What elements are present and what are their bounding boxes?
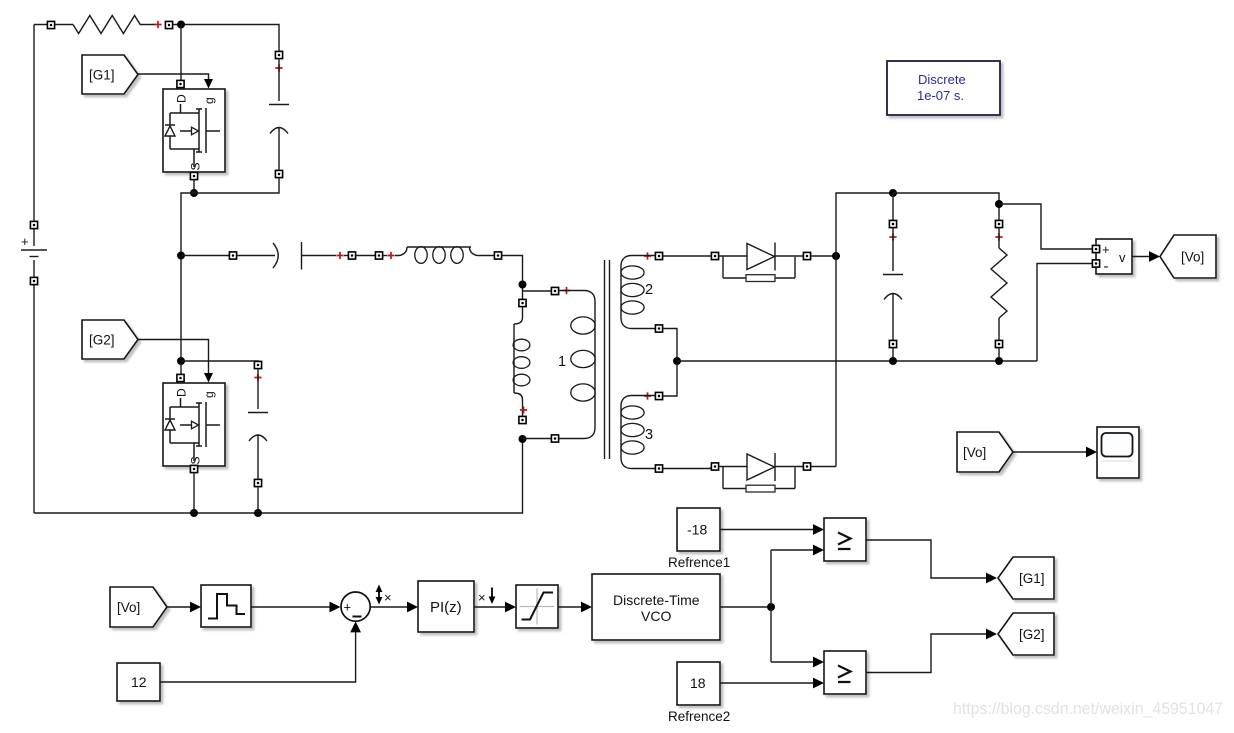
Goto tag [G1] bbox=[998, 557, 1054, 599]
port Q1 drain bbox=[177, 80, 184, 87]
wire: bottom rail to voltmeter minus input bbox=[1037, 264, 1093, 362]
svg-text:+: + bbox=[21, 234, 29, 249]
arrowhead into zero-order hold bbox=[190, 602, 201, 613]
svg-text:v: v bbox=[1119, 250, 1126, 265]
port Q2 drain bbox=[177, 374, 184, 381]
arrowhead into [G2] bbox=[986, 629, 997, 640]
wire: VCO output to fanout node bbox=[720, 606, 771, 608]
wire: winding3 bottom to diode D2 bbox=[663, 467, 712, 469]
svg-text:Discrete: Discrete bbox=[918, 72, 966, 87]
wire: 18 to RO2 second input bbox=[720, 682, 813, 684]
voltage measurement U1 bbox=[1092, 239, 1132, 275]
wire: top rail to load branch bbox=[893, 193, 999, 221]
svg-text:[Vo]: [Vo] bbox=[117, 600, 140, 615]
svg-text:https://blog.csdn.net/weixin_4: https://blog.csdn.net/weixin_45951047 bbox=[953, 700, 1223, 718]
wire: node A down to Q1 drain bbox=[180, 25, 182, 81]
svg-text:2: 2 bbox=[645, 282, 653, 298]
port Q1 source bbox=[190, 172, 197, 179]
scope block bbox=[1097, 427, 1139, 478]
wire: center tap rail to output section bbox=[677, 360, 1037, 362]
PI(z) controller block bbox=[418, 581, 474, 632]
capacitor C3 (output filter capacitor) bbox=[883, 193, 903, 361]
wire: voltmeter to goto [Vo] bbox=[1132, 256, 1149, 258]
transformer secondary winding 2 bbox=[621, 252, 663, 332]
gate arrow into Q2 bbox=[204, 373, 213, 383]
wire: PI(z) to saturation bbox=[474, 606, 505, 608]
svg-text:-18: -18 bbox=[687, 522, 707, 538]
node C junction (181,255) bbox=[177, 252, 185, 260]
arrowhead into [G1] bbox=[986, 573, 997, 584]
wire: 12 to sum bottom input bbox=[160, 632, 356, 682]
node D junction (181,361) bbox=[177, 357, 185, 365]
sum block (+ -) bbox=[341, 592, 370, 621]
svg-text:Refrence2: Refrence2 bbox=[668, 709, 730, 724]
svg-text:VCO: VCO bbox=[641, 608, 671, 624]
inductor Ls (series resonant inductor) bbox=[375, 247, 501, 264]
wire: sum to PI(z) bbox=[370, 606, 407, 608]
wire: [G1] to Q1 gate bbox=[138, 74, 209, 79]
wire: Q2 source down to bottom rail bbox=[193, 473, 195, 514]
constant block 18 (Refrence2) bbox=[668, 662, 730, 724]
svg-text:1: 1 bbox=[558, 354, 566, 370]
inductor Lm (magnetizing inductance) bbox=[513, 299, 530, 423]
wire: [G2] to Q2 gate bbox=[138, 340, 209, 374]
wire: node F to primary winding bottom bbox=[523, 438, 552, 440]
svg-text:+: + bbox=[344, 600, 352, 615]
svg-text:[G2]: [G2] bbox=[1019, 627, 1045, 642]
svg-text:18: 18 bbox=[690, 675, 706, 691]
svg-text:1e-07 s.: 1e-07 s. bbox=[917, 88, 964, 103]
svg-text:[G1]: [G1] bbox=[1019, 571, 1045, 586]
transistor Q1 (upper MOSFET block) bbox=[163, 89, 225, 172]
node H junction (836,256) bbox=[832, 252, 840, 260]
wire: fanout to RO2 first input bbox=[771, 661, 813, 663]
transformer primary winding 1 bbox=[551, 287, 595, 442]
arrowhead into goto [Vo] bbox=[1149, 251, 1160, 262]
DC voltage source Vdc bbox=[21, 221, 47, 284]
svg-text:3: 3 bbox=[645, 427, 653, 443]
svg-text:×: × bbox=[478, 590, 486, 605]
node L junction (999,361) bbox=[995, 357, 1003, 365]
relational operator RO1 (>=) bbox=[824, 518, 866, 561]
wire: [Vo] to scope bbox=[1013, 451, 1086, 453]
wire: fanout vertical bbox=[770, 550, 772, 662]
constant block -18 (Refrence1) bbox=[668, 508, 730, 570]
svg-text:PI(z): PI(z) bbox=[430, 599, 462, 616]
wire: [Vo] to zero-order hold bbox=[167, 606, 190, 608]
svg-text:[G1]: [G1] bbox=[89, 68, 115, 83]
wire: top-left rail from source to resistor and down left side bbox=[34, 25, 48, 514]
wire: node C to series capacitor Cs bbox=[181, 255, 229, 257]
From tag [G1] bbox=[82, 55, 138, 94]
wire: node B left and down midpoint rail bbox=[181, 193, 194, 377]
From tag [Vo] (feedback) bbox=[110, 587, 167, 627]
transistor Q2 (lower MOSFET block) bbox=[163, 383, 225, 466]
Goto tag [G2] bbox=[998, 613, 1054, 655]
From tag [Vo] (to scope) bbox=[957, 432, 1013, 472]
wire: winding3 top to center tap bbox=[663, 361, 678, 396]
relational operator RO2 (>=) bbox=[824, 651, 866, 694]
powergui block: Discrete 1e-07 s. bbox=[887, 61, 1000, 115]
node A junction (181,25) bbox=[177, 21, 185, 29]
wire: node E branch to primary winding top bbox=[523, 290, 552, 292]
arrowhead into PI(z) bbox=[407, 602, 418, 613]
wire: resistor to node A and to C1 bbox=[173, 25, 279, 52]
junction at Q2 source on rail bbox=[190, 509, 198, 517]
svg-text:Refrence1: Refrence1 bbox=[668, 555, 730, 570]
saturation block bbox=[516, 585, 558, 628]
node F junction (522,439) bbox=[519, 435, 527, 443]
wire: node J to voltmeter plus input bbox=[999, 204, 1093, 249]
wire: fanout to RO1 second input bbox=[771, 549, 813, 551]
arrowhead into scope bbox=[1086, 447, 1097, 458]
svg-text:[Vo]: [Vo] bbox=[963, 445, 986, 460]
resistor R2 (load resistor) bbox=[991, 220, 1007, 361]
wire: saturation to VCO bbox=[558, 606, 581, 608]
node E junction (522,284) bbox=[519, 281, 527, 289]
arrowhead into VCO bbox=[581, 602, 592, 613]
wire: -18 to RO1 first input bbox=[720, 529, 813, 531]
svg-text:-: - bbox=[1104, 258, 1109, 275]
node I junction on top rail (893,193) bbox=[889, 189, 897, 197]
capacitor Cs (series resonant capacitor) bbox=[229, 242, 355, 270]
junction at C2 on rail bbox=[254, 509, 262, 517]
svg-text:+: + bbox=[1102, 242, 1110, 257]
svg-text:12: 12 bbox=[131, 674, 147, 690]
diode D2 with RC snubber bbox=[711, 453, 810, 492]
wire: rectifier output vertical bus bbox=[836, 193, 893, 467]
resistor R1 (top left series resistor) bbox=[47, 16, 172, 34]
From tag [G2] bbox=[82, 320, 138, 359]
zero-order hold block bbox=[201, 585, 251, 627]
wire: node B to C1 bottom bbox=[194, 178, 279, 194]
transformer secondary winding 3 bbox=[621, 392, 663, 472]
rate transition annotation x and down-arrow bbox=[478, 588, 495, 606]
wire: D1 output to node H bbox=[811, 255, 837, 257]
wire: zero-order hold to sum bbox=[251, 606, 330, 608]
constant block 12 bbox=[117, 663, 160, 701]
wire: Cs to Ls bbox=[356, 255, 376, 257]
wire: node D to capacitor C2 top bbox=[181, 360, 258, 363]
wire: Ls to transformer node bbox=[502, 256, 523, 300]
node J junction (999,204) bbox=[995, 200, 1003, 208]
Goto tag [Vo] bbox=[1160, 235, 1216, 278]
capacitor C2 (half-bridge lower capacitor) bbox=[248, 361, 268, 486]
svg-text:Discrete-Time: Discrete-Time bbox=[613, 592, 700, 608]
wire: D2 output to bus bbox=[811, 466, 837, 468]
transformer core bbox=[605, 260, 610, 459]
wire: C2 bottom to rail bbox=[257, 487, 259, 514]
bottom rail wire bbox=[34, 442, 523, 513]
wire: RO2 to goto [G2] bbox=[866, 634, 986, 673]
arrowhead into saturation bbox=[505, 602, 516, 613]
node M junction (771,607) bbox=[767, 603, 775, 611]
capacitor C1 (half-bridge upper capacitor) bbox=[269, 51, 289, 177]
node B junction (194,193) bbox=[190, 189, 198, 197]
diode D1 with RC snubber bbox=[711, 243, 810, 282]
Discrete-Time VCO block bbox=[592, 574, 720, 640]
wire: Q1 source to node B bbox=[193, 180, 195, 194]
svg-text:[Vo]: [Vo] bbox=[1181, 250, 1204, 265]
svg-text:[G2]: [G2] bbox=[89, 333, 115, 348]
rate transition annotation up-arrow and x bbox=[376, 585, 392, 606]
node G center-tap junction (677,361) bbox=[673, 357, 681, 365]
svg-text:×: × bbox=[384, 590, 392, 605]
wire: winding2 top to diode D1 bbox=[663, 255, 712, 257]
wire: RO1 to goto [G1] bbox=[866, 540, 986, 578]
node K junction (893,361) bbox=[889, 357, 897, 365]
arrowhead into sum bbox=[330, 602, 341, 613]
gate arrow into Q1 bbox=[204, 79, 213, 89]
port Q2 source bbox=[190, 465, 197, 472]
arrowhead up into sum bbox=[350, 621, 361, 632]
wire: winding2 bottom to center tap bbox=[663, 329, 678, 362]
